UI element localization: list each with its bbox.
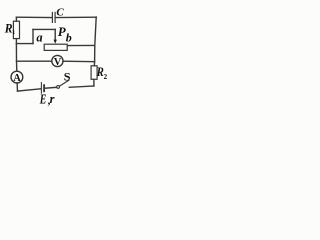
wire slider bracket vertical — [32, 29, 34, 43]
potentiometer P body — [44, 44, 67, 50]
svg-text:C: C — [56, 7, 64, 19]
wire voltmeter left lead — [17, 60, 52, 62]
battery E plate short — [43, 85, 45, 91]
svg-text:2: 2 — [104, 73, 108, 81]
switch S lever — [59, 80, 68, 86]
wire switch to R2 bottom — [69, 86, 94, 87]
resistor R2 body — [91, 66, 97, 80]
resistor R1 body — [13, 21, 19, 38]
svg-text:S: S — [64, 69, 71, 83]
wire R1 top lead — [15, 17, 17, 21]
wire battery to switch — [45, 86, 57, 89]
wire slider bracket horizontal — [33, 28, 55, 30]
voltmeter V circle — [52, 55, 63, 66]
svg-text:E: E — [39, 93, 46, 107]
svg-text:1: 1 — [12, 29, 15, 36]
svg-text:A: A — [13, 73, 21, 84]
wire R2 bottom lead — [93, 79, 95, 86]
wire pot b terminal to right vertical — [67, 44, 95, 46]
ammeter A circle — [11, 71, 23, 83]
svg-text:a: a — [36, 31, 42, 45]
capacitor C plates — [52, 12, 55, 22]
wire bottom left rail — [18, 89, 42, 91]
wire voltmeter right lead — [63, 60, 95, 63]
potentiometer P slider stem — [54, 29, 56, 40]
wire R1 bottom lead — [15, 39, 17, 44]
wire left vertical to voltmeter junction — [15, 44, 17, 72]
potentiometer P slider arrowhead — [54, 40, 57, 44]
wire top right segment — [55, 16, 96, 18]
svg-text:b: b — [66, 31, 72, 45]
wire top left segment — [16, 16, 52, 18]
wire ammeter bottom lead — [16, 83, 18, 91]
wire junction to slider bracket — [16, 43, 33, 45]
battery E plate long — [40, 83, 42, 94]
svg-text:V: V — [54, 57, 62, 68]
switch S pivot — [57, 86, 60, 89]
svg-text:r: r — [50, 92, 55, 106]
svg-text:R: R — [96, 65, 104, 79]
wire right vertical — [94, 17, 96, 66]
